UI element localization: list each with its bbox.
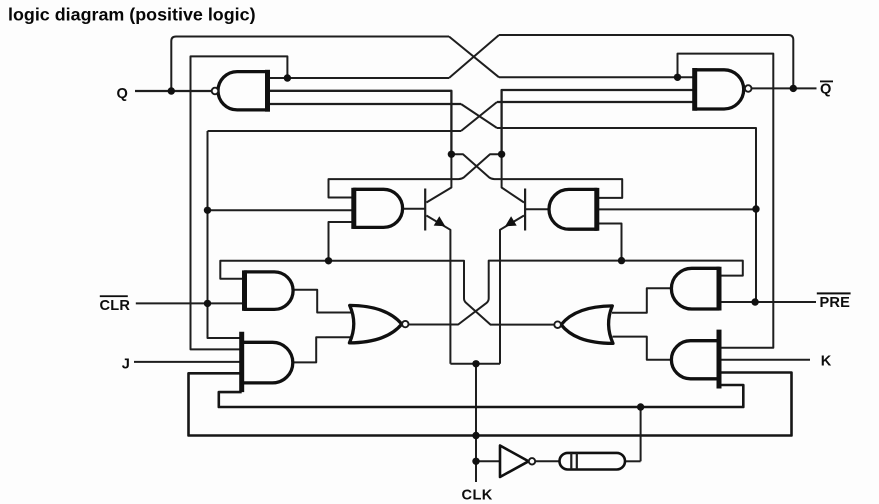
AND gate U2A (left master, drives Q1 base) bbox=[354, 188, 403, 229]
svg-text:K: K bbox=[821, 354, 832, 370]
wire: CLR column down to J gate input bbox=[208, 131, 242, 338]
transistor Q2 base bar bbox=[524, 189, 526, 231]
bubble: U4B output bbox=[554, 321, 561, 328]
junction: CLK on clock distribution line bbox=[472, 432, 479, 439]
wire: left NOR output to right feedback rail and PRE gate input bbox=[409, 261, 743, 325]
junction: emitter tie to CLK riser bbox=[472, 360, 479, 367]
transistor Q2 emitter arrow bbox=[505, 216, 517, 226]
AND gate U3B (J input gate) bbox=[242, 332, 293, 392]
junction: right feedback rail tap bbox=[618, 257, 625, 264]
svg-text:J: J bbox=[122, 357, 130, 373]
wire: left master AND middle input from CLR column bbox=[208, 209, 354, 211]
junction: latch node left (X3) bbox=[448, 151, 455, 158]
wire: inverter output to delay element bbox=[535, 460, 561, 462]
wire: CLR gate output step into left NOR top input bbox=[293, 290, 351, 313]
node K label bbox=[821, 354, 832, 370]
wire: emitter tie bar bbox=[450, 363, 500, 365]
AND gate U5A (PRE input gate) bbox=[671, 267, 719, 311]
junction: CLR node bbox=[204, 300, 211, 307]
wire: CLK riser to emitters bbox=[475, 364, 477, 482]
transistor Q2 emitter lead down to clock rail bbox=[500, 216, 524, 364]
svg-text:Q: Q bbox=[820, 81, 831, 97]
junction: delay output on inhibit line bbox=[637, 403, 644, 410]
wire: J input lead bbox=[134, 361, 242, 363]
junction: latch node right (X3) bbox=[498, 151, 505, 158]
junction: CLK tap to inverter bbox=[472, 458, 479, 465]
wire: right master AND middle input from PRE column bbox=[597, 208, 756, 210]
wire: right NAND middle input with riser to latch node bbox=[502, 90, 695, 154]
bubble: U4A output bbox=[402, 321, 408, 327]
wire: branch up to right master AND bottom input bbox=[597, 224, 622, 261]
wire: PRE input lead bbox=[719, 301, 816, 303]
wire: clock distribution line to J and K gates bbox=[189, 373, 792, 436]
wire: K input lead bbox=[719, 359, 810, 361]
wire: crossover X1 diagonal (QB rail up to top) bbox=[449, 35, 499, 78]
junction: Q feedback tap on right NAND top input bbox=[674, 74, 681, 81]
wire: delay element output riser bbox=[640, 407, 642, 461]
wire: crossover X3 left node to right AND top input bbox=[451, 154, 622, 198]
junction: left feedback rail tap bbox=[325, 257, 332, 264]
wire: left NAND bottom input run bbox=[268, 103, 462, 105]
wire: crossover X2 diagonal (CLR rail up to right NAND bottom input) bbox=[461, 102, 497, 131]
svg-text:CLR: CLR bbox=[100, 298, 131, 314]
wire: CLR input lead bbox=[136, 302, 245, 304]
wire: right NAND bottom input run bbox=[497, 101, 695, 103]
wire: QB feedback column down left side to J gate bbox=[191, 56, 288, 349]
junction: QB feedback tap on left NAND top input bbox=[284, 74, 291, 81]
wire: J gate output step into left NOR bottom input bbox=[293, 337, 351, 362]
node Q label bbox=[117, 86, 128, 102]
wire: Q input lead bbox=[135, 90, 212, 92]
transistor Q1 base bar bbox=[424, 189, 426, 231]
transistor Q2 base lead bbox=[525, 208, 549, 210]
transistor Q1 emitter lead down to clock rail bbox=[426, 216, 450, 364]
bubble: U6 output bbox=[529, 458, 535, 464]
wire: delay element output lead bbox=[625, 460, 641, 462]
node QB label with overbar bbox=[820, 81, 833, 98]
transistor Q1 base lead bbox=[403, 208, 426, 210]
junction: PRE node bbox=[751, 298, 758, 305]
wire: top rail to QB output node bbox=[499, 35, 793, 88]
node J label bbox=[122, 357, 130, 373]
NOR gate U4A (left master NOR, output bubble) bbox=[349, 305, 401, 343]
NAND gate U1B (QB output latch, right, output bubble) bbox=[695, 68, 744, 111]
bubble: U1B output bbox=[745, 85, 752, 92]
wire: crossover X1 diagonal (Q rail down to right NAND top input) bbox=[449, 37, 499, 78]
wire: right NAND top input run (Q feedback) bbox=[499, 76, 695, 78]
wire: branch up to left master AND bottom input bbox=[329, 222, 354, 261]
wire: PRE gate output step into right NOR top input bbox=[612, 288, 671, 312]
junction: CLR column tap to left AND bbox=[204, 207, 211, 214]
junction: Q input node bbox=[168, 87, 175, 94]
wire: Q feedback from right NAND input to K gate bbox=[678, 54, 774, 348]
wire: run to PRE column and down to PRE node bbox=[497, 128, 756, 302]
svg-text:CLK: CLK bbox=[462, 488, 493, 504]
AND gate U5B (K input gate) bbox=[671, 330, 719, 389]
transistor Q2 collector lead bbox=[502, 154, 524, 202]
wire: CLR column top run bbox=[208, 130, 462, 132]
svg-text:Q: Q bbox=[117, 86, 128, 102]
junction: PRE column tap to right AND bbox=[752, 205, 759, 212]
AND gate U2B (right master, drives Q2 base) bbox=[549, 188, 597, 231]
wire: left NAND top input run (QB feedback) bbox=[268, 77, 450, 79]
inverter U6 (CLK inverter) bbox=[500, 446, 529, 478]
node PRE label with overbar bbox=[817, 292, 851, 311]
bubble: U1A output bbox=[212, 88, 219, 95]
svg-text:logic diagram (positive logic): logic diagram (positive logic) bbox=[8, 5, 256, 25]
NAND gate U1A (Q output latch, left, output bubble) bbox=[218, 70, 268, 112]
wire: left NAND middle input with riser to latch node bbox=[268, 91, 452, 155]
transistor Q1 emitter arrow bbox=[434, 216, 446, 226]
wire: crossover X3 right node to left AND top input bbox=[329, 154, 502, 197]
AND gate U3A (CLR input gate) bbox=[245, 270, 294, 310]
wire: right NOR output to left feedback rail and CLR gate input bbox=[220, 261, 554, 325]
wire: delayed clock line to J and K gate inhibit inputs bbox=[219, 385, 744, 407]
svg-text:PRE: PRE bbox=[820, 295, 851, 311]
node CLK label bbox=[462, 488, 493, 504]
NOR gate U4B (right master NOR, output bubble) bbox=[561, 306, 613, 344]
wire: crossover X2 diagonal (left to PRE column) bbox=[461, 104, 497, 128]
wire: QB output lead bbox=[751, 87, 817, 89]
transistor Q1 collector lead bbox=[426, 154, 451, 202]
title: logic diagram (positive logic) bbox=[8, 5, 256, 25]
wire: K gate output step into right NOR bottom input bbox=[613, 337, 672, 360]
delay element D1 (pulse shaper) bbox=[560, 453, 626, 470]
node CLR label with overbar bbox=[100, 295, 131, 314]
wire: CLK to inverter input bbox=[476, 460, 500, 462]
junction: QB output node bbox=[790, 85, 797, 92]
wire: Q net riser to top rail (node Q) bbox=[171, 37, 449, 92]
